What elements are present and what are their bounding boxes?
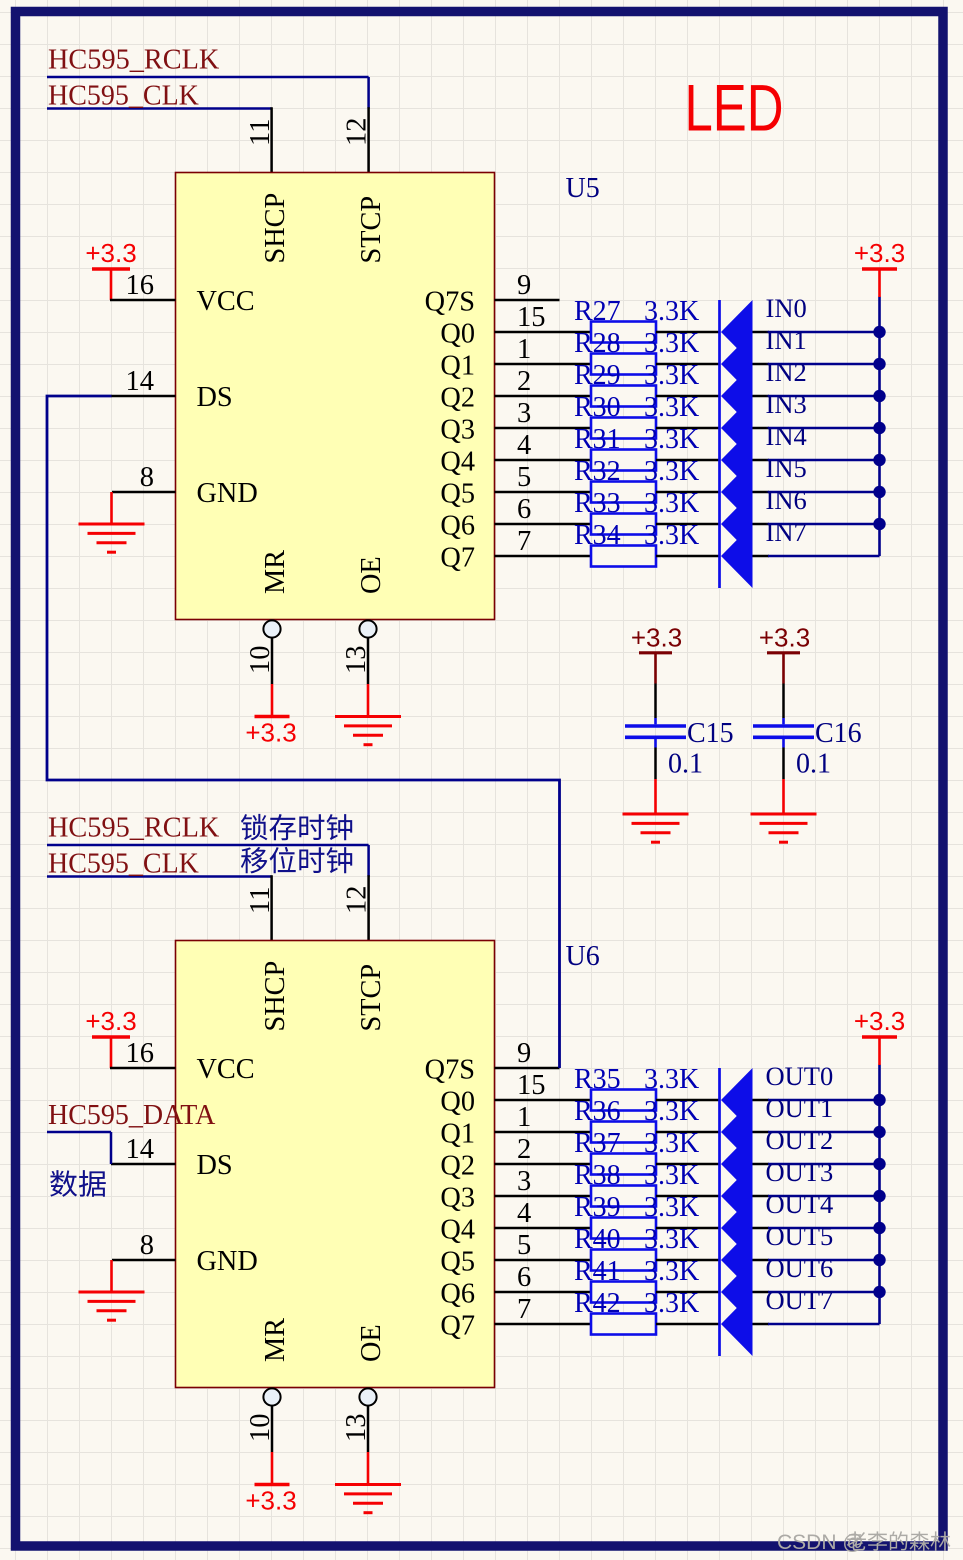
svg-text:R30: R30 bbox=[574, 392, 621, 423]
svg-text:9: 9 bbox=[517, 270, 531, 301]
svg-text:12: 12 bbox=[341, 118, 372, 147]
svg-text:10: 10 bbox=[245, 1414, 276, 1443]
svg-text:OE: OE bbox=[356, 1324, 387, 1362]
svg-text:R29: R29 bbox=[574, 360, 621, 391]
svg-text:Q7S: Q7S bbox=[425, 1055, 475, 1086]
svg-text:HC595_CLK: HC595_CLK bbox=[48, 849, 199, 880]
svg-text:5: 5 bbox=[517, 462, 531, 493]
svg-text:3.3K: 3.3K bbox=[644, 520, 699, 551]
svg-text:6: 6 bbox=[517, 494, 531, 525]
svg-text:VCC: VCC bbox=[197, 1054, 255, 1085]
svg-text:+3.3: +3.3 bbox=[854, 1006, 905, 1036]
svg-text:15: 15 bbox=[517, 1070, 546, 1101]
svg-text:Q4: Q4 bbox=[440, 1215, 475, 1246]
svg-text:3.3K: 3.3K bbox=[644, 360, 699, 391]
svg-text:U5: U5 bbox=[566, 173, 600, 204]
svg-text:11: 11 bbox=[245, 119, 276, 146]
svg-text:3.3K: 3.3K bbox=[644, 1224, 699, 1255]
svg-text:14: 14 bbox=[126, 366, 155, 397]
svg-text:Q5: Q5 bbox=[440, 479, 475, 510]
svg-text:+3.3: +3.3 bbox=[85, 1006, 136, 1036]
svg-text:GND: GND bbox=[197, 1246, 258, 1277]
svg-text:4: 4 bbox=[517, 1198, 531, 1229]
svg-text:R42: R42 bbox=[574, 1288, 621, 1319]
svg-text:IN5: IN5 bbox=[766, 453, 807, 483]
svg-text:+3.3: +3.3 bbox=[85, 238, 136, 268]
svg-text:LED: LED bbox=[685, 72, 784, 145]
svg-text:+3.3: +3.3 bbox=[631, 623, 682, 653]
svg-text:8: 8 bbox=[140, 462, 154, 493]
svg-text:3.3K: 3.3K bbox=[644, 1256, 699, 1287]
svg-text:R40: R40 bbox=[574, 1224, 621, 1255]
svg-text:R34: R34 bbox=[574, 520, 621, 551]
svg-text:15: 15 bbox=[517, 302, 546, 333]
svg-text:1: 1 bbox=[517, 334, 531, 365]
svg-text:10: 10 bbox=[245, 646, 276, 675]
svg-text:R41: R41 bbox=[574, 1256, 621, 1287]
svg-text:12: 12 bbox=[341, 886, 372, 915]
svg-text:R33: R33 bbox=[574, 488, 621, 519]
svg-text:+3.3: +3.3 bbox=[245, 718, 296, 748]
svg-text:MR: MR bbox=[260, 1318, 291, 1362]
svg-text:+3.3: +3.3 bbox=[854, 238, 905, 268]
svg-text:2: 2 bbox=[517, 1134, 531, 1165]
svg-text:R27: R27 bbox=[574, 296, 621, 327]
svg-text:3.3K: 3.3K bbox=[644, 296, 699, 327]
svg-text:14: 14 bbox=[126, 1134, 155, 1165]
svg-text:Q6: Q6 bbox=[440, 511, 475, 542]
svg-text:IN3: IN3 bbox=[766, 389, 807, 419]
svg-text:13: 13 bbox=[341, 1414, 372, 1443]
svg-text:0.1: 0.1 bbox=[796, 749, 831, 780]
svg-text:R37: R37 bbox=[574, 1128, 621, 1159]
svg-text:+3.3: +3.3 bbox=[759, 623, 810, 653]
svg-text:R36: R36 bbox=[574, 1096, 621, 1127]
svg-text:VCC: VCC bbox=[197, 286, 255, 317]
svg-text:Q7S: Q7S bbox=[425, 287, 475, 318]
svg-text:6: 6 bbox=[517, 1262, 531, 1293]
svg-text:Q1: Q1 bbox=[440, 351, 475, 382]
svg-text:OUT5: OUT5 bbox=[766, 1221, 834, 1251]
svg-text:OUT1: OUT1 bbox=[766, 1093, 834, 1123]
svg-text:DS: DS bbox=[197, 1150, 233, 1181]
svg-text:1: 1 bbox=[517, 1102, 531, 1133]
svg-text:R28: R28 bbox=[574, 328, 621, 359]
svg-text:HC595_RCLK: HC595_RCLK bbox=[48, 45, 220, 76]
svg-text:7: 7 bbox=[517, 526, 531, 557]
svg-text:Q3: Q3 bbox=[440, 1183, 475, 1214]
svg-text:HC595_DATA: HC595_DATA bbox=[48, 1100, 216, 1131]
svg-text:3.3K: 3.3K bbox=[644, 424, 699, 455]
svg-text:8: 8 bbox=[140, 1230, 154, 1261]
svg-text:3: 3 bbox=[517, 1166, 531, 1197]
svg-text:STCP: STCP bbox=[356, 964, 387, 1032]
svg-text:+3.3: +3.3 bbox=[245, 1486, 296, 1516]
svg-text:16: 16 bbox=[126, 270, 155, 301]
svg-text:C16: C16 bbox=[815, 718, 862, 749]
svg-text:Q0: Q0 bbox=[440, 1087, 475, 1118]
svg-text:3.3K: 3.3K bbox=[644, 1288, 699, 1319]
svg-text:OUT0: OUT0 bbox=[766, 1061, 834, 1091]
svg-text:Q5: Q5 bbox=[440, 1247, 475, 1278]
svg-text:IN0: IN0 bbox=[766, 293, 807, 323]
svg-text:3: 3 bbox=[517, 398, 531, 429]
svg-text:IN7: IN7 bbox=[766, 517, 807, 547]
svg-text:Q4: Q4 bbox=[440, 447, 475, 478]
svg-text:7: 7 bbox=[517, 1294, 531, 1325]
svg-text:R38: R38 bbox=[574, 1160, 621, 1191]
svg-text:Q3: Q3 bbox=[440, 415, 475, 446]
svg-text:OE: OE bbox=[356, 556, 387, 594]
svg-text:Q7: Q7 bbox=[440, 543, 475, 574]
svg-text:OUT4: OUT4 bbox=[766, 1189, 834, 1219]
svg-text:OUT2: OUT2 bbox=[766, 1125, 834, 1155]
svg-text:5: 5 bbox=[517, 1230, 531, 1261]
svg-text:HC595_CLK: HC595_CLK bbox=[48, 81, 199, 112]
svg-text:4: 4 bbox=[517, 430, 531, 461]
svg-text:0.1: 0.1 bbox=[668, 749, 703, 780]
svg-text:STCP: STCP bbox=[356, 196, 387, 264]
svg-text:DS: DS bbox=[197, 382, 233, 413]
svg-text:Q2: Q2 bbox=[440, 1151, 475, 1182]
svg-text:IN4: IN4 bbox=[766, 421, 807, 451]
svg-text:SHCP: SHCP bbox=[260, 193, 291, 264]
svg-text:MR: MR bbox=[260, 550, 291, 594]
svg-text:3.3K: 3.3K bbox=[644, 1128, 699, 1159]
svg-text:R39: R39 bbox=[574, 1192, 621, 1223]
svg-text:9: 9 bbox=[517, 1038, 531, 1069]
svg-text:3.3K: 3.3K bbox=[644, 456, 699, 487]
svg-text:SHCP: SHCP bbox=[260, 961, 291, 1032]
svg-text:IN1: IN1 bbox=[766, 325, 807, 355]
svg-text:OUT3: OUT3 bbox=[766, 1157, 834, 1187]
svg-text:3.3K: 3.3K bbox=[644, 1192, 699, 1223]
svg-text:R31: R31 bbox=[574, 424, 621, 455]
svg-text:HC595_RCLK: HC595_RCLK bbox=[48, 813, 220, 844]
svg-text:13: 13 bbox=[341, 646, 372, 675]
svg-text:Q1: Q1 bbox=[440, 1119, 475, 1150]
svg-text:OUT6: OUT6 bbox=[766, 1253, 834, 1283]
svg-text:IN2: IN2 bbox=[766, 357, 807, 387]
svg-text:16: 16 bbox=[126, 1038, 155, 1069]
svg-text:OUT7: OUT7 bbox=[766, 1285, 834, 1315]
svg-text:Q2: Q2 bbox=[440, 383, 475, 414]
svg-text:3.3K: 3.3K bbox=[644, 328, 699, 359]
svg-text:3.3K: 3.3K bbox=[644, 392, 699, 423]
svg-text:3.3K: 3.3K bbox=[644, 1160, 699, 1191]
svg-text:U6: U6 bbox=[566, 941, 600, 972]
svg-text:3.3K: 3.3K bbox=[644, 488, 699, 519]
svg-text:R32: R32 bbox=[574, 456, 621, 487]
svg-text:Q6: Q6 bbox=[440, 1279, 475, 1310]
svg-text:GND: GND bbox=[197, 478, 258, 509]
svg-text:2: 2 bbox=[517, 366, 531, 397]
svg-text:11: 11 bbox=[245, 887, 276, 914]
svg-text:IN6: IN6 bbox=[766, 485, 807, 515]
svg-text:R35: R35 bbox=[574, 1064, 621, 1095]
svg-text:Q0: Q0 bbox=[440, 319, 475, 350]
svg-text:3.3K: 3.3K bbox=[644, 1096, 699, 1127]
svg-text:C15: C15 bbox=[687, 718, 734, 749]
svg-text:Q7: Q7 bbox=[440, 1311, 475, 1342]
svg-text:3.3K: 3.3K bbox=[644, 1064, 699, 1095]
